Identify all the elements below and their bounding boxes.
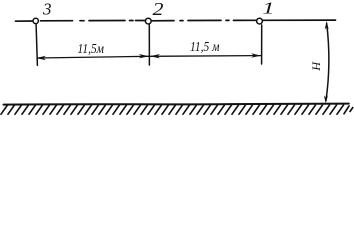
svg-text:1: 1 xyxy=(262,0,274,18)
svg-text:2: 2 xyxy=(153,0,164,19)
svg-text:11,5м: 11,5м xyxy=(78,41,105,56)
svg-text:3: 3 xyxy=(42,0,52,19)
svg-text:Н: Н xyxy=(309,61,323,72)
svg-text:11,5 м: 11,5 м xyxy=(190,39,220,54)
